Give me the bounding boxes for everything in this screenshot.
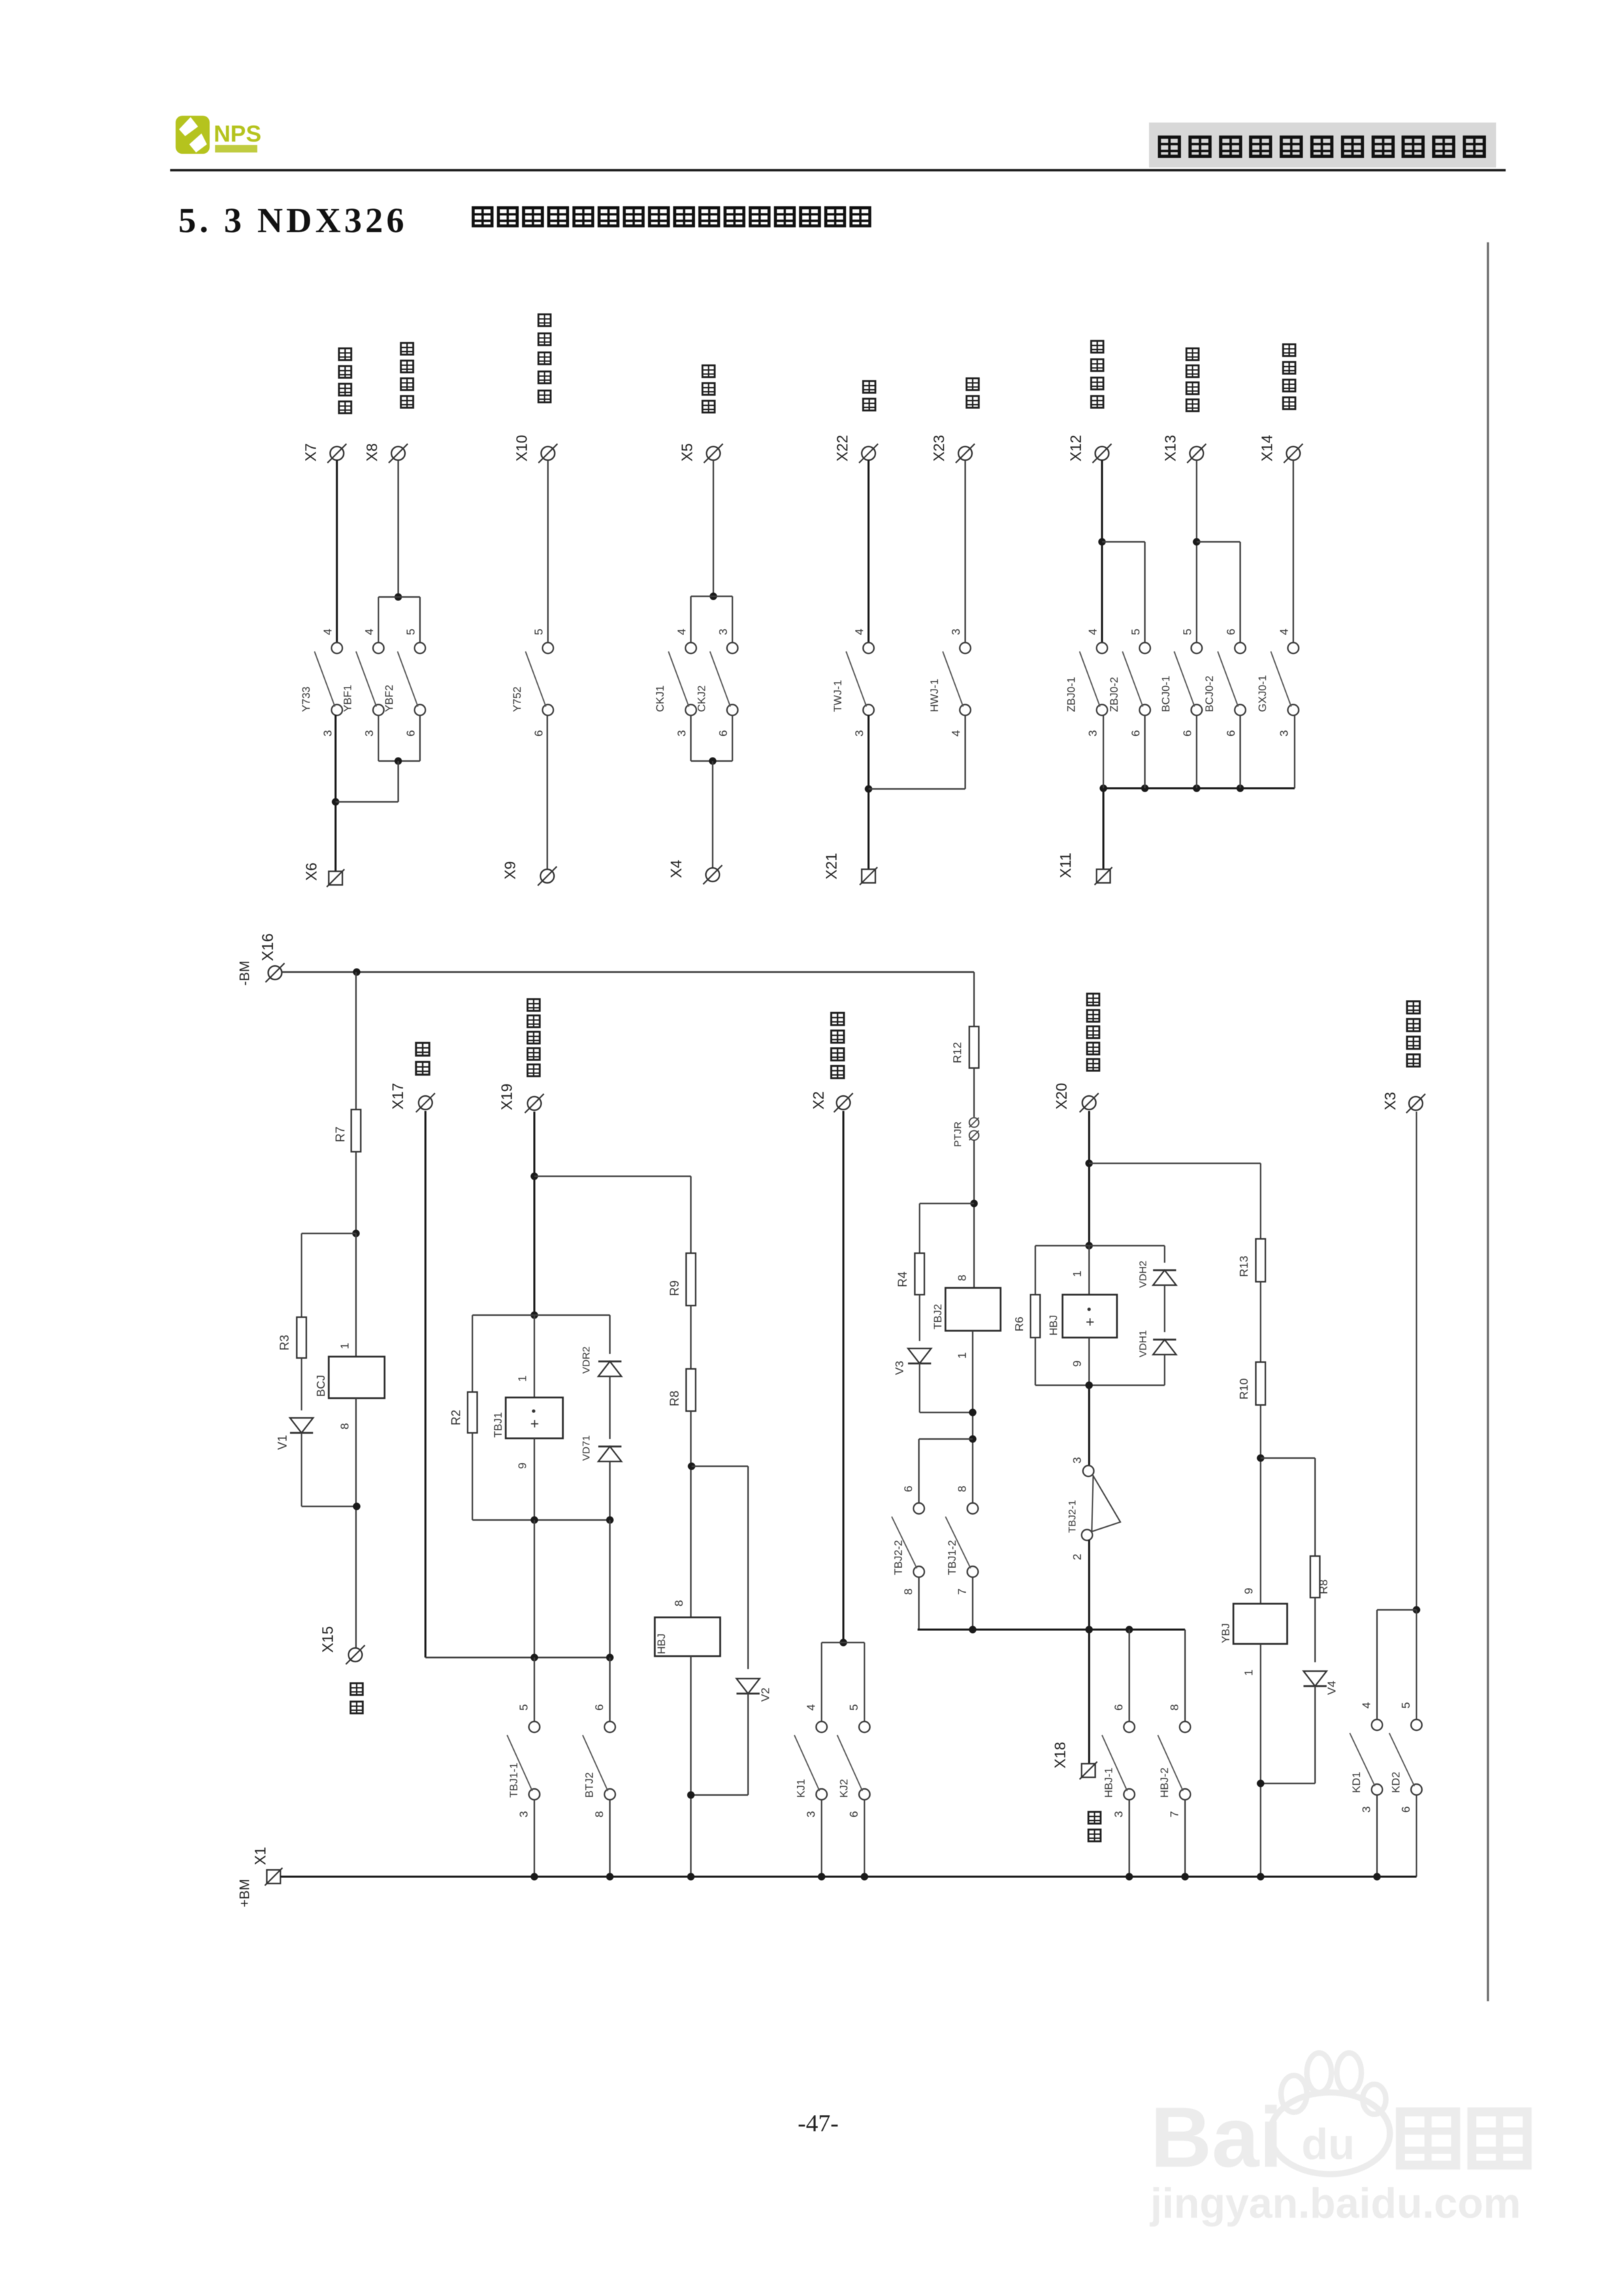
wires to close bus: [918, 1577, 920, 1630]
switch BTJ2: [583, 1704, 615, 1817]
svg-text:R12: R12: [951, 1042, 964, 1063]
svg-text:5: 5: [517, 1704, 530, 1711]
svg-text:X18: X18: [1052, 1742, 1069, 1768]
terminal X18: [1080, 1762, 1097, 1779]
svg-text:VDH2: VDH2: [1137, 1261, 1149, 1288]
junction V1 rejoin: [353, 1503, 361, 1510]
wire X8 split rail: [378, 596, 420, 598]
svg-text:X2: X2: [810, 1091, 827, 1110]
svg-text:5. 3 NDX326: 5. 3 NDX326: [178, 201, 408, 240]
wire HZJ coil branch: [1088, 1246, 1090, 1295]
switch ZBJ0-2: [1109, 643, 1150, 715]
diode V4: [1303, 1671, 1327, 1686]
svg-text:4: 4: [1278, 629, 1291, 635]
svg-text:2: 2: [1071, 1554, 1084, 1560]
svg-text:3: 3: [321, 730, 334, 737]
junction KD rail: [1413, 1606, 1421, 1614]
svg-text:4: 4: [321, 629, 334, 635]
label 装置告警 (X14): [1283, 344, 1295, 356]
switch YBF1: [342, 643, 384, 715]
KD rail: [1377, 1609, 1416, 1611]
label 跳位 (X22): [863, 381, 875, 393]
svg-text:+: +: [1086, 1314, 1095, 1331]
svg-text:X12: X12: [1067, 435, 1084, 462]
terminal X4: [703, 865, 722, 884]
switch HBJ-2: [1158, 1704, 1190, 1817]
wire X17 down: [425, 1111, 427, 1658]
wire X10 down: [547, 460, 549, 643]
label 合位 (X23): [967, 378, 979, 390]
svg-text:6: 6: [1181, 730, 1194, 737]
label 保护合闸: [1407, 1001, 1420, 1014]
zener VD71: [598, 1446, 621, 1461]
svg-text:3: 3: [853, 730, 866, 737]
svg-text:3: 3: [363, 730, 376, 737]
svg-text:X20: X20: [1053, 1083, 1070, 1110]
lower bus (trip side): [425, 1657, 610, 1658]
relay coil TBJ1: [506, 1397, 563, 1438]
diode V3: [908, 1348, 931, 1363]
wire R3 to V1: [301, 1358, 302, 1410]
wire X3 down: [1416, 1112, 1417, 1610]
svg-text:3: 3: [1071, 1457, 1084, 1464]
terminal X8: [389, 444, 408, 463]
svg-text:R9: R9: [668, 1280, 681, 1296]
resistor R8b: [1310, 1556, 1320, 1598]
junction HZJ box top: [1086, 1242, 1093, 1250]
svg-text:6: 6: [1112, 1704, 1125, 1711]
wire R4 branch: [920, 1203, 974, 1204]
svg-text:X10: X10: [513, 435, 530, 462]
svg-text:PTJR: PTJR: [952, 1121, 964, 1147]
label 过负荷 (X5): [702, 366, 715, 377]
switch KD2: [1389, 1702, 1422, 1813]
svg-text:3: 3: [675, 730, 688, 737]
wires to KJ switches: [821, 1643, 822, 1722]
svg-text:9: 9: [1242, 1588, 1255, 1594]
svg-text:V3: V3: [893, 1361, 906, 1375]
label 掉闸信号 (X12): [1091, 341, 1103, 353]
wires to +BM bus: [534, 1799, 535, 1877]
junction R3 branch: [353, 1230, 360, 1238]
close-side bus: [918, 1629, 1185, 1631]
svg-text:1: 1: [956, 1353, 969, 1359]
wire R9 column: [690, 1176, 692, 1253]
wire R3 branch: [302, 1233, 356, 1234]
switch TBJ2-2: [892, 1486, 924, 1595]
svg-text:1: 1: [338, 1343, 351, 1349]
terminal X16: [265, 963, 285, 982]
svg-text:BTJ2: BTJ2: [584, 1773, 596, 1798]
terminal X10: [538, 444, 557, 463]
wire X14 down: [1293, 460, 1294, 643]
svg-text:6: 6: [902, 1486, 915, 1492]
svg-text:6: 6: [847, 1811, 860, 1817]
wire TBJ2 split: [919, 1438, 973, 1440]
junction V3 rejoin: [969, 1409, 977, 1417]
junction V4 rejoin: [1257, 1780, 1265, 1788]
svg-text:HBJ: HBJ: [656, 1634, 668, 1654]
svg-text:R13: R13: [1237, 1256, 1250, 1277]
svg-text:GXJ0-1: GXJ0-1: [1257, 675, 1269, 712]
svg-text:KJ2: KJ2: [839, 1779, 850, 1798]
svg-text:5: 5: [1181, 629, 1194, 635]
switch TBJ1-2: [945, 1486, 978, 1595]
wires to X11 bus: [1103, 715, 1104, 788]
wire R6 branch: [1035, 1246, 1036, 1295]
svg-text:X22: X22: [834, 435, 851, 462]
svg-text:3: 3: [1360, 1807, 1373, 1813]
svg-text:ZBJ0-1: ZBJ0-1: [1066, 677, 1078, 712]
svg-text:X19: X19: [498, 1084, 515, 1110]
link PTJR: [969, 1118, 979, 1140]
switch CKJ1: [655, 643, 696, 715]
svg-text:1: 1: [1242, 1670, 1255, 1676]
wire R8b branch: [1261, 1457, 1315, 1459]
svg-text:3: 3: [1086, 730, 1099, 737]
wire X5 down: [713, 460, 714, 596]
switch TBJ1-1: [507, 1704, 540, 1817]
terminal X22: [859, 444, 878, 463]
svg-text:X15: X15: [319, 1626, 336, 1653]
svg-text:X16: X16: [259, 933, 276, 961]
svg-text:3: 3: [517, 1811, 530, 1817]
label 遥控分闸 (X7): [339, 349, 351, 360]
wire X10 lower to X9: [547, 715, 548, 869]
svg-text:YBF2: YBF2: [384, 685, 395, 712]
wires to switches below: [534, 1658, 535, 1722]
svg-text:R7: R7: [334, 1127, 347, 1142]
wire HBJ-2 col: [1184, 1630, 1186, 1722]
junction X22/X23: [865, 786, 873, 793]
svg-text:1: 1: [516, 1376, 529, 1382]
svg-text:X9: X9: [502, 861, 519, 879]
svg-text:BCJ: BCJ: [314, 1375, 327, 1397]
svg-text:X5: X5: [679, 443, 696, 462]
label 手分: [351, 1683, 363, 1695]
junction X12 split: [1099, 538, 1106, 546]
svg-text:6: 6: [1399, 1807, 1412, 1813]
junction X19 to R9: [531, 1173, 538, 1180]
junction X13 split: [1193, 538, 1201, 546]
terminal X13: [1187, 444, 1206, 463]
switch KD1: [1350, 1702, 1382, 1813]
terminal X9: [538, 867, 557, 886]
wire X12 branch: [1102, 541, 1145, 543]
svg-text:TBJ1-2: TBJ1-2: [947, 1540, 958, 1575]
svg-text:KD1: KD1: [1351, 1772, 1363, 1793]
bus +BM horizontal: [280, 1876, 1416, 1878]
wire X19 down: [534, 1112, 536, 1315]
switch BCJ0-2: [1204, 643, 1246, 715]
svg-text:8: 8: [956, 1486, 969, 1492]
HZJ box top rail: [1035, 1245, 1165, 1246]
svg-text:6: 6: [1225, 629, 1237, 635]
svg-text:+BM: +BM: [238, 1879, 253, 1907]
terminal X17: [416, 1093, 435, 1112]
svg-text:+: +: [530, 1415, 539, 1432]
label 遥控合闸 (X8): [401, 343, 413, 355]
svg-text:HBJ-1: HBJ-1: [1103, 1767, 1115, 1798]
svg-text:V4: V4: [1325, 1681, 1338, 1695]
switch GXJ0-1: [1257, 643, 1299, 715]
zener VDR2: [598, 1361, 621, 1376]
terminal X21: [860, 867, 877, 885]
svg-text:V2: V2: [759, 1687, 772, 1702]
svg-text:6: 6: [532, 730, 545, 737]
switch ZBJ0-1: [1066, 643, 1107, 715]
diode V1: [290, 1418, 313, 1433]
svg-text:X4: X4: [668, 860, 685, 878]
zener VDH1: [1153, 1340, 1176, 1355]
svg-text:ZBJ0-2: ZBJ0-2: [1109, 677, 1120, 712]
resistor R6: [1031, 1295, 1040, 1338]
switch HWJ-1: [929, 643, 971, 715]
TBJ1 top rail: [472, 1314, 610, 1316]
label 保护掉闸: [831, 1013, 844, 1025]
svg-text:8: 8: [338, 1423, 351, 1429]
svg-text:4: 4: [1360, 1702, 1373, 1709]
terminal X19: [525, 1094, 544, 1113]
svg-text:R4: R4: [896, 1272, 909, 1287]
svg-text:3: 3: [1278, 730, 1291, 737]
switch HBJ-1: [1102, 1704, 1135, 1817]
terminal X14: [1284, 444, 1303, 463]
wire join to X7 line: [398, 761, 399, 802]
svg-text:6: 6: [1129, 730, 1142, 737]
switch TWJ-1: [832, 643, 874, 715]
label 掉闸: [416, 1043, 430, 1056]
svg-text:R3: R3: [278, 1335, 291, 1351]
svg-text:YBF1: YBF1: [342, 685, 354, 712]
svg-text:8: 8: [956, 1275, 969, 1281]
svg-text:X11: X11: [1057, 852, 1074, 878]
wire bus to X11: [1103, 788, 1105, 869]
svg-text:Bai: Bai: [1150, 2090, 1283, 2185]
svg-text:TBJ1: TBJ1: [493, 1412, 504, 1438]
junction R4 branch: [971, 1200, 978, 1208]
svg-text:6: 6: [593, 1704, 606, 1711]
wire X19-R9 branch: [534, 1176, 691, 1177]
svg-text:4: 4: [950, 730, 962, 737]
svg-text:8: 8: [593, 1811, 606, 1817]
svg-text:TBJ2: TBJ2: [933, 1304, 944, 1329]
svg-text:4: 4: [675, 629, 688, 635]
svg-text:8: 8: [673, 1600, 685, 1606]
wire to TBJ2-1 switch: [1088, 1385, 1090, 1466]
label 合闸至线圈: [1087, 994, 1099, 1005]
wire R2 branch: [472, 1315, 473, 1392]
svg-text:Y733: Y733: [301, 687, 312, 712]
resistor R10: [1256, 1362, 1265, 1405]
svg-text:5: 5: [847, 1704, 860, 1711]
svg-text:CKJ1: CKJ1: [655, 685, 666, 712]
wires TBJ1 to lower bus: [534, 1520, 535, 1658]
svg-text:9: 9: [1071, 1361, 1084, 1367]
terminal X3: [1406, 1094, 1425, 1113]
wire X7 lower to X6: [335, 715, 337, 871]
junction V2 rejoin: [687, 1792, 695, 1799]
label 合闸: [1088, 1812, 1101, 1824]
wire HBJ-1 col: [1129, 1630, 1130, 1722]
svg-text:8: 8: [902, 1589, 915, 1595]
wire X22 down: [868, 460, 870, 643]
svg-text:HWJ-1: HWJ-1: [929, 679, 941, 712]
header title box: [1149, 123, 1496, 167]
terminal X20: [1080, 1093, 1099, 1112]
relay coil YBJ: [1233, 1604, 1287, 1644]
svg-text:4: 4: [853, 629, 866, 635]
terminal X2: [834, 1093, 853, 1112]
junction CKJ join: [709, 758, 717, 765]
watermark baidu jingyan: [1150, 2053, 1390, 2185]
svg-text:HBJ-2: HBJ-2: [1159, 1767, 1171, 1798]
wires KJ to +BM bus: [821, 1799, 822, 1877]
svg-text:X1: X1: [252, 1847, 269, 1865]
switch KJ1: [794, 1704, 827, 1817]
terminal X7: [327, 444, 346, 463]
wire TBJ1 coil branch: [534, 1315, 535, 1397]
svg-text:VD71: VD71: [581, 1435, 592, 1461]
svg-text:X23: X23: [930, 435, 947, 462]
svg-text:R8: R8: [668, 1391, 681, 1406]
section title 5.3 NDX326...: [178, 201, 870, 240]
switch BCJ0-1: [1161, 643, 1202, 715]
terminal X15: [346, 1645, 365, 1664]
svg-text:du: du: [1301, 2120, 1355, 2169]
junction X7/X8 join: [332, 798, 340, 806]
terminal X6: [327, 869, 344, 887]
svg-text:HBJ: HBJ: [1048, 1315, 1060, 1336]
svg-text:4: 4: [1086, 629, 1099, 635]
terminal X12: [1092, 444, 1112, 463]
wire BCJ column: [355, 1233, 357, 1357]
wire X12 down: [1101, 460, 1103, 643]
svg-text:9: 9: [516, 1463, 529, 1469]
svg-text:KJ1: KJ1: [796, 1779, 807, 1798]
svg-text:3: 3: [1112, 1811, 1125, 1817]
svg-text:R8: R8: [1317, 1579, 1330, 1594]
terminal X1: [265, 1868, 282, 1886]
svg-text:TWJ-1: TWJ-1: [832, 680, 844, 712]
svg-text:5: 5: [1129, 629, 1142, 635]
svg-text:8: 8: [1168, 1704, 1181, 1711]
svg-text:YBJ: YBJ: [1220, 1623, 1232, 1643]
svg-text:X6: X6: [303, 862, 320, 881]
diode V2: [736, 1679, 760, 1694]
svg-text:5: 5: [532, 629, 545, 635]
wire X20 down: [1088, 1111, 1090, 1246]
svg-text:X14: X14: [1259, 435, 1276, 462]
svg-text:R10: R10: [1237, 1378, 1250, 1400]
svg-text:3: 3: [717, 629, 730, 635]
svg-text:BCJ0-2: BCJ0-2: [1204, 676, 1216, 712]
resistor R9: [686, 1253, 696, 1306]
svg-text:jingyan.baidu.com: jingyan.baidu.com: [1150, 2180, 1521, 2227]
junction V2 branch top: [688, 1463, 696, 1470]
junction TBJ1 top: [531, 1312, 538, 1319]
resistor R4: [915, 1253, 924, 1295]
resistor R12: [969, 1026, 979, 1068]
svg-text:BCJ0-1: BCJ0-1: [1161, 676, 1172, 712]
junction R8b branch: [1257, 1455, 1265, 1462]
wire X23 branch rail: [869, 788, 965, 790]
label X10 column: [538, 314, 551, 326]
wire to close bus: [1088, 1540, 1090, 1630]
switch TBJ2-1: [1083, 1466, 1094, 1476]
zener VDH2: [1153, 1270, 1176, 1285]
wire X8 down: [398, 460, 399, 597]
svg-text:X17: X17: [389, 1083, 406, 1110]
wire X13 down: [1196, 460, 1197, 643]
svg-text:NPS: NPS: [214, 121, 261, 147]
junction R7 column: [353, 969, 361, 976]
svg-text:Y752: Y752: [512, 687, 523, 712]
relay coil TBJ2: [945, 1288, 1001, 1331]
svg-text:R2: R2: [449, 1410, 463, 1425]
resistor R7: [351, 1110, 361, 1152]
svg-text:3: 3: [805, 1811, 817, 1817]
svg-text:X13: X13: [1162, 435, 1179, 462]
svg-text:R6: R6: [1013, 1316, 1026, 1331]
wire R7 column: [355, 972, 357, 1110]
terminal X23: [956, 444, 975, 463]
svg-text:V1: V1: [276, 1435, 289, 1450]
resistor R13: [1256, 1239, 1265, 1282]
junction YBF join: [395, 758, 402, 765]
terminal X11: [1095, 867, 1112, 885]
svg-text:TBJ2-2: TBJ2-2: [893, 1540, 905, 1575]
wire X7 down: [336, 460, 338, 643]
svg-text:-BM: -BM: [238, 960, 253, 986]
wire V1 to join: [301, 1433, 302, 1506]
svg-text:4: 4: [363, 629, 376, 635]
terminal X5: [704, 444, 723, 463]
svg-text:5: 5: [1399, 1702, 1412, 1709]
wire X13 branch: [1197, 541, 1240, 543]
wire V2 branch: [692, 1466, 748, 1467]
junction X8 split: [395, 594, 402, 601]
resistor R3: [297, 1317, 306, 1358]
switch YBF2: [384, 643, 425, 715]
bus -BM horizontal: [282, 971, 974, 973]
switch Y733: [301, 643, 342, 715]
wire X23 down: [965, 460, 966, 643]
wire YBJ down: [1260, 1644, 1261, 1877]
TBJ1 bottom rail: [472, 1519, 610, 1521]
wire HBJ down: [690, 1656, 692, 1877]
wire R12 column: [973, 972, 975, 1026]
junction R13 branch: [1086, 1160, 1093, 1167]
resistor R2: [468, 1392, 477, 1433]
svg-text:X7: X7: [302, 443, 319, 462]
svg-text:7: 7: [956, 1589, 969, 1595]
svg-text:X3: X3: [1382, 1092, 1399, 1110]
svg-text:6: 6: [717, 730, 730, 737]
svg-text:6: 6: [404, 730, 417, 737]
relay coil BCJ: [329, 1357, 385, 1398]
relay coil HZJ: [1063, 1295, 1117, 1338]
svg-text:VDR2: VDR2: [581, 1346, 592, 1374]
NPS logo: [176, 116, 261, 154]
svg-text:CKJ2: CKJ2: [696, 685, 708, 712]
header rule: [170, 169, 1506, 172]
svg-text:-47-: -47-: [798, 2109, 839, 2137]
label 重合信号 (X13): [1186, 349, 1199, 360]
svg-text:KD2: KD2: [1391, 1772, 1402, 1793]
svg-text:1: 1: [1071, 1271, 1084, 1277]
switch CKJ2: [696, 643, 738, 715]
